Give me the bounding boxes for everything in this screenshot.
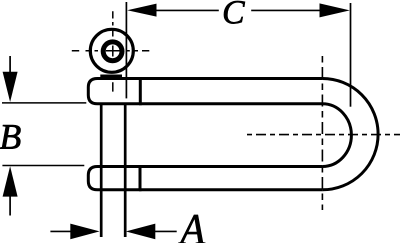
dimension B upper arrowhead [3,72,18,102]
pin vertical center line [112,11,114,91]
shackle top rail upper line [139,77,322,80]
dimension C line left segment [155,9,219,11]
dimension C extension line left [125,2,127,98]
dimension A line right [155,230,177,232]
label C [224,1,245,24]
dimension C extension line right [350,3,352,107]
shackle bend outer arc [322,79,378,190]
dimension A line left [50,230,70,232]
pin head flange bar [100,74,122,78]
shackle top rail lower line [139,102,322,105]
shackle bottom rail upper line [139,165,322,168]
label A [178,215,205,243]
shackle bottom eye cap [88,167,140,190]
pin head outer circle [90,29,133,72]
dimension C left arrowhead [127,4,156,17]
bend horizontal center line [247,134,400,136]
shackle top eye cap [88,79,140,104]
dimension C line right segment [251,9,320,11]
dimension C right arrowhead [320,3,350,17]
pin shaft left edge [100,105,103,238]
dimension A left arrowhead [70,224,99,240]
dimension B lower line [2,165,84,167]
dimension B upper line [2,102,86,104]
dimension B upper stem [9,56,11,73]
dimension B lower stem [9,196,11,216]
label B [0,125,20,149]
shackle bend inner arc [322,104,351,167]
pin shaft right edge [124,105,127,238]
pin head inner circle [103,42,122,61]
pin head horizontal center line [72,50,150,52]
dimension B lower arrowhead [3,166,18,196]
dimension A right arrowhead [126,224,155,240]
shackle bottom rail lower line [139,188,322,191]
bend vertical center line [321,56,323,210]
